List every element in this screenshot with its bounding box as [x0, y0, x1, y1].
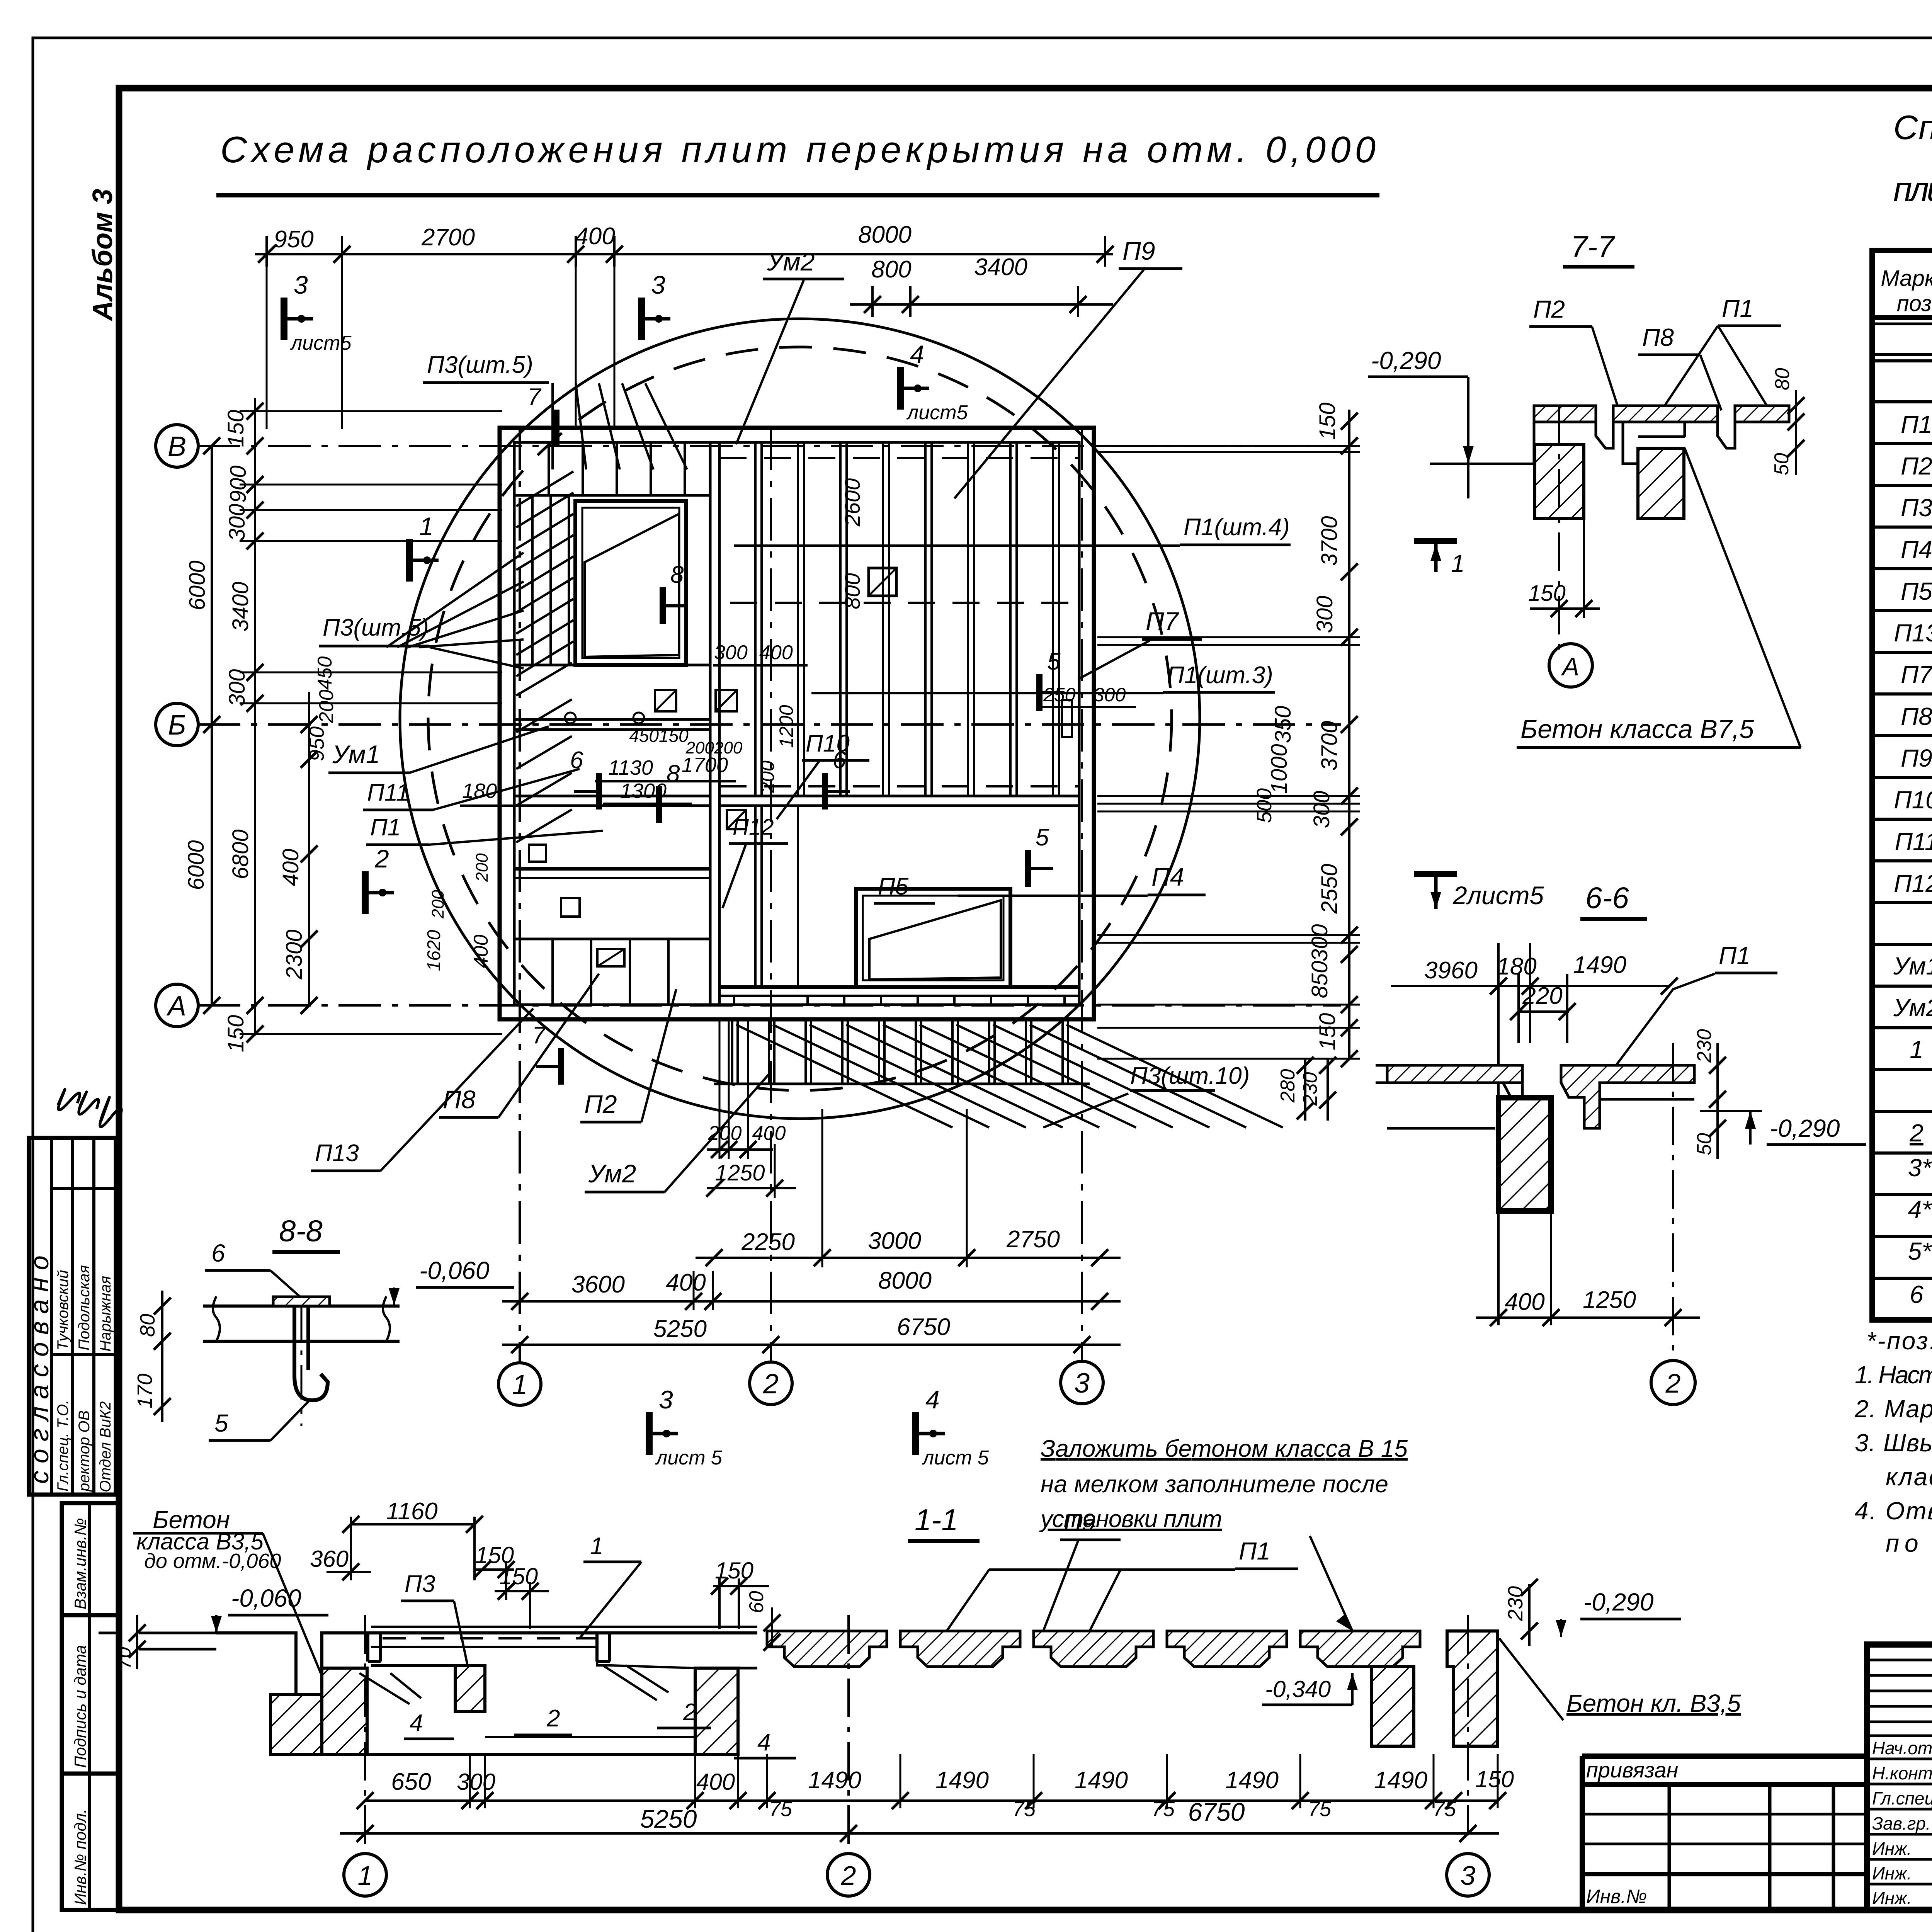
svg-text:П4: П4: [1901, 536, 1932, 563]
svg-text:450: 450: [314, 656, 336, 690]
svg-text:75: 75: [1433, 1798, 1456, 1821]
svg-text:250: 250: [1043, 684, 1076, 706]
svg-text:П8: П8: [1642, 323, 1674, 351]
svg-text:230: 230: [1299, 1072, 1321, 1106]
svg-text:Н.контр.: Н.контр.: [1872, 1763, 1932, 1783]
svg-text:1: 1: [419, 512, 434, 541]
svg-text:П5: П5: [878, 873, 909, 900]
svg-text:800: 800: [840, 573, 864, 609]
svg-text:Марка,: Марка,: [1881, 266, 1932, 291]
svg-text:-0,290: -0,290: [1371, 347, 1441, 374]
svg-text:1: 1: [358, 1861, 373, 1891]
svg-text:300: 300: [1094, 684, 1126, 706]
svg-text:1300: 1300: [620, 779, 667, 803]
svg-text:3700: 3700: [1317, 721, 1342, 770]
svg-text:3*: 3*: [1908, 1154, 1932, 1182]
svg-text:П1: П1: [1901, 410, 1932, 438]
svg-text:230: 230: [1693, 1029, 1716, 1063]
svg-text:6750: 6750: [1188, 1798, 1245, 1826]
svg-text:П11: П11: [367, 779, 409, 806]
svg-text:Гл.спец. Т.О.: Гл.спец. Т.О.: [54, 1400, 71, 1492]
svg-text:Ум2: Ум2: [767, 247, 815, 276]
svg-text:Ум2: Ум2: [1893, 994, 1932, 1022]
svg-text:лист5: лист5: [906, 401, 968, 424]
svg-text:5*: 5*: [1908, 1237, 1932, 1265]
svg-text:5250: 5250: [653, 1316, 707, 1342]
svg-text:2250: 2250: [741, 1229, 795, 1255]
svg-text:300: 300: [457, 1769, 495, 1795]
svg-text:1490: 1490: [1374, 1767, 1427, 1794]
svg-text:1490: 1490: [808, 1767, 861, 1794]
svg-text:3400: 3400: [974, 254, 1027, 281]
svg-text:П12: П12: [1894, 869, 1932, 897]
svg-text:-0,290: -0,290: [1583, 1588, 1654, 1616]
svg-text:5: 5: [1047, 648, 1061, 675]
svg-text:Подпись и дата: Подпись и дата: [71, 1645, 89, 1768]
svg-text:Ум1: Ум1: [1893, 952, 1932, 980]
svg-text:1130: 1130: [608, 756, 653, 779]
svg-text:П13: П13: [1894, 619, 1932, 647]
svg-text:П4: П4: [1151, 862, 1184, 891]
svg-text:75: 75: [1151, 1798, 1175, 1821]
svg-text:Заложить бетоном класса В 15: Заложить бетоном класса В 15: [1041, 1435, 1408, 1462]
svg-text:Подольская: Подольская: [76, 1265, 93, 1350]
svg-text:4: 4: [925, 1385, 940, 1414]
svg-text:Нач.отд: Нач.отд: [1872, 1738, 1932, 1758]
svg-text:5: 5: [214, 1409, 228, 1437]
svg-text:-0,060: -0,060: [231, 1584, 301, 1612]
svg-text:300: 300: [224, 669, 250, 707]
svg-text:Б: Б: [168, 710, 186, 741]
svg-text:поз.: поз.: [1897, 291, 1932, 316]
svg-text:до отм.-0,060: до отм.-0,060: [144, 1549, 281, 1573]
svg-text:75: 75: [769, 1798, 793, 1821]
svg-text:300: 300: [224, 504, 250, 541]
svg-text:3000: 3000: [868, 1228, 921, 1254]
svg-text:7: 7: [532, 1022, 546, 1049]
svg-text:*-поз. 3,4,5- см. ведомость д: *-поз. 3,4,5- см. ведомость деталей на л…: [1866, 1327, 1932, 1355]
svg-text:2: 2: [1909, 1119, 1923, 1147]
svg-text:850: 850: [1307, 961, 1332, 998]
svg-text:1160: 1160: [386, 1498, 437, 1525]
svg-text:400: 400: [575, 223, 615, 250]
svg-text:8: 8: [670, 561, 684, 588]
svg-text:150: 150: [223, 1015, 248, 1053]
svg-text:2: 2: [546, 1705, 560, 1732]
svg-text:П2: П2: [1533, 295, 1565, 323]
svg-text:150: 150: [1315, 1013, 1340, 1051]
svg-text:Альбом 3: Альбом 3: [87, 189, 118, 321]
svg-text:50: 50: [1693, 1133, 1716, 1155]
svg-text:900: 900: [226, 466, 251, 503]
svg-text:3600: 3600: [571, 1271, 625, 1298]
svg-text:Бетон класса В7,5: Бетон класса В7,5: [1520, 714, 1754, 744]
svg-text:класса В15 на мелком запол: класса В15 на мелком заполнителе: [1886, 1463, 1932, 1491]
svg-text:650: 650: [391, 1769, 431, 1795]
svg-text:П1: П1: [370, 814, 401, 841]
svg-text:400: 400: [752, 1122, 786, 1145]
svg-text:4: 4: [910, 340, 924, 369]
svg-text:950: 950: [274, 226, 313, 253]
svg-text:1490: 1490: [1573, 952, 1626, 978]
svg-text:П3: П3: [405, 1571, 435, 1597]
svg-text:400: 400: [759, 641, 793, 664]
svg-text:400: 400: [470, 935, 492, 968]
svg-text:1250: 1250: [1583, 1287, 1636, 1313]
svg-text:8000: 8000: [878, 1267, 932, 1294]
svg-text:Спецификация к схеме распол: Спецификация к схеме расположения: [1893, 108, 1932, 146]
svg-text:150: 150: [499, 1563, 538, 1589]
svg-text:П1: П1: [1719, 942, 1750, 969]
svg-text:7: 7: [527, 384, 542, 410]
svg-text:1250: 1250: [715, 1160, 765, 1185]
svg-text:300: 300: [1307, 924, 1332, 962]
svg-text:4: 4: [757, 1729, 770, 1756]
svg-text:6-6: 6-6: [1585, 881, 1629, 915]
svg-text:70: 70: [113, 1647, 135, 1669]
svg-text:170: 170: [133, 1374, 156, 1408]
svg-text:П9: П9: [1064, 1509, 1095, 1536]
svg-text:5: 5: [1036, 824, 1049, 851]
svg-text:2. Маркировка балок перекрыт: 2. Маркировка балок перекрытия на листе …: [1854, 1395, 1932, 1423]
svg-text:2: 2: [763, 1369, 779, 1400]
svg-text:2лист5: 2лист5: [1452, 881, 1544, 910]
svg-text:П7: П7: [1901, 661, 1932, 689]
svg-text:4: 4: [410, 1710, 423, 1736]
svg-text:Инж.: Инж.: [1872, 1863, 1912, 1883]
svg-text:60: 60: [745, 1591, 768, 1613]
svg-text:Нарыжная: Нарыжная: [97, 1276, 114, 1352]
svg-text:150: 150: [1528, 581, 1566, 606]
svg-text:П8: П8: [1901, 702, 1932, 730]
svg-text:75: 75: [1012, 1798, 1036, 1821]
svg-text:2750: 2750: [1006, 1226, 1060, 1253]
svg-text:1200: 1200: [776, 705, 797, 748]
svg-text:-0,340: -0,340: [1265, 1676, 1331, 1702]
svg-text:2300: 2300: [282, 929, 307, 980]
svg-text:6000: 6000: [184, 840, 209, 890]
svg-text:180: 180: [462, 779, 497, 803]
svg-text:150: 150: [223, 410, 248, 447]
svg-text:8000: 8000: [858, 221, 912, 248]
svg-text:П3(шт.5): П3(шт.5): [427, 352, 533, 378]
svg-text:1: 1: [1910, 1036, 1923, 1063]
svg-text:300: 300: [714, 641, 748, 664]
svg-text:3400: 3400: [228, 582, 253, 631]
svg-text:1. Настоящий чертеж смотреть: 1. Настоящий чертеж смотреть с листом 6.: [1855, 1361, 1932, 1389]
svg-text:1620: 1620: [424, 930, 444, 971]
svg-text:1: 1: [1451, 549, 1465, 577]
svg-text:Отдел ВиК2: Отдел ВиК2: [97, 1401, 114, 1492]
svg-text:80: 80: [136, 1314, 159, 1337]
svg-text:3: 3: [651, 270, 665, 299]
svg-text:1: 1: [512, 1369, 527, 1400]
svg-text:ректор ОВ: ректор ОВ: [76, 1410, 93, 1492]
svg-text:П2: П2: [1901, 452, 1932, 480]
svg-text:200: 200: [315, 690, 338, 724]
svg-text:150: 150: [1475, 1766, 1514, 1792]
svg-text:3960: 3960: [1424, 957, 1478, 984]
svg-text:Бетон кл. В3,5: Бетон кл. В3,5: [1566, 1689, 1741, 1717]
svg-text:В: В: [168, 431, 186, 462]
svg-text:3: 3: [1461, 1861, 1476, 1891]
svg-text:400: 400: [666, 1269, 706, 1296]
svg-text:Схема расположения плит пер: Схема расположения плит перекрытия на от…: [220, 129, 1376, 170]
svg-text:6000: 6000: [185, 560, 210, 610]
svg-text:450150: 450150: [629, 726, 689, 746]
svg-text:П9: П9: [1122, 236, 1155, 265]
svg-text:2550: 2550: [1317, 864, 1342, 914]
svg-text:400: 400: [1505, 1289, 1544, 1315]
svg-text:3: 3: [294, 270, 308, 299]
svg-text:П13: П13: [315, 1140, 359, 1167]
svg-text:280: 280: [1277, 1069, 1299, 1103]
svg-text:3. Швы между плитами заполн: 3. Швы между плитами заполнить бетоном: [1855, 1429, 1932, 1457]
svg-text:А: А: [1561, 652, 1579, 681]
svg-text:80: 80: [1771, 368, 1794, 390]
svg-text:50: 50: [1770, 453, 1793, 475]
svg-text:на мелком заполнителе после: на мелком заполнителе после: [1041, 1471, 1388, 1498]
svg-text:П2: П2: [584, 1090, 617, 1118]
svg-text:лист 5: лист 5: [655, 1447, 723, 1469]
svg-text:Зав.гр.: Зав.гр.: [1872, 1813, 1931, 1833]
svg-text:П3: П3: [1901, 494, 1932, 522]
svg-text:П12: П12: [733, 815, 774, 840]
svg-text:Ум1: Ум1: [332, 740, 380, 769]
svg-text:П5: П5: [1901, 577, 1932, 605]
svg-text:П10: П10: [1894, 786, 1932, 814]
svg-text:А: А: [166, 991, 186, 1022]
svg-text:Взам.инв.№: Взам.инв.№: [71, 1518, 89, 1609]
svg-text:2: 2: [841, 1861, 856, 1891]
svg-text:800: 800: [871, 256, 911, 283]
svg-text:Инж.: Инж.: [1872, 1838, 1912, 1859]
svg-text:П7: П7: [1146, 607, 1179, 635]
svg-text:лист5: лист5: [290, 332, 352, 354]
svg-text:П1(шт.3): П1(шт.3): [1167, 662, 1273, 689]
svg-text:П1(шт.4): П1(шт.4): [1184, 514, 1290, 541]
svg-text:360: 360: [310, 1546, 349, 1572]
svg-text:3700: 3700: [1317, 516, 1342, 566]
svg-text:1-1: 1-1: [915, 1503, 958, 1537]
svg-text:350: 350: [1270, 706, 1296, 743]
svg-text:8: 8: [667, 760, 680, 787]
svg-text:200200: 200200: [685, 738, 743, 757]
svg-text:2700: 2700: [421, 224, 475, 251]
svg-text:Ум2: Ум2: [588, 1159, 636, 1188]
svg-text:1000: 1000: [1267, 744, 1292, 794]
svg-text:400: 400: [278, 849, 303, 886]
svg-text:с о г л а с о в а н о: с о г л а с о в а н о: [25, 1255, 54, 1484]
svg-text:1490: 1490: [1225, 1767, 1279, 1794]
svg-text:плит перекрытия на отм. 0: плит перекрытия на отм. 0,000: [1893, 170, 1932, 208]
svg-text:200: 200: [473, 853, 492, 882]
svg-text:П3(шт.10): П3(шт.10): [1130, 1063, 1250, 1089]
svg-text:6: 6: [211, 1239, 225, 1267]
svg-text:2600: 2600: [840, 478, 864, 527]
svg-text:1: 1: [590, 1533, 603, 1560]
svg-text:Инв.№: Инв.№: [1586, 1886, 1647, 1907]
svg-text:П10: П10: [806, 730, 850, 757]
svg-text:200: 200: [757, 760, 778, 793]
svg-text:-0,060: -0,060: [419, 1257, 490, 1284]
svg-text:7-7: 7-7: [1571, 230, 1615, 264]
svg-text:75: 75: [1308, 1798, 1332, 1821]
svg-text:6800: 6800: [228, 829, 253, 879]
svg-text:-0,290: -0,290: [1770, 1114, 1840, 1142]
svg-text:3: 3: [659, 1385, 673, 1414]
svg-text:500: 500: [1253, 788, 1276, 823]
svg-text:950: 950: [305, 726, 328, 761]
svg-text:6750: 6750: [897, 1314, 950, 1340]
svg-text:Тучковский: Тучковский: [54, 1270, 71, 1350]
svg-text:П1: П1: [1722, 294, 1753, 322]
svg-text:200: 200: [429, 890, 447, 919]
svg-text:П9: П9: [1901, 744, 1932, 772]
svg-text:Гл.спец: Гл.спец: [1872, 1788, 1932, 1808]
svg-text:5250: 5250: [640, 1804, 697, 1833]
svg-text:Инж.: Инж.: [1872, 1888, 1912, 1908]
svg-text:300: 300: [1312, 596, 1337, 633]
svg-text:400: 400: [696, 1769, 735, 1795]
svg-text:2: 2: [683, 1699, 696, 1726]
svg-text:привязан: привязан: [1586, 1758, 1678, 1782]
svg-text:1490: 1490: [1075, 1767, 1128, 1794]
svg-text:по месту: по месту: [1886, 1529, 1932, 1557]
svg-text:П11: П11: [1895, 828, 1932, 855]
svg-text:П1: П1: [1239, 1537, 1270, 1565]
svg-text:150: 150: [1315, 403, 1340, 440]
svg-text:лист 5: лист 5: [922, 1447, 989, 1469]
svg-text:6: 6: [1910, 1281, 1923, 1308]
svg-text:4*: 4*: [1908, 1196, 1932, 1223]
svg-text:3: 3: [1074, 1368, 1090, 1399]
svg-text:2: 2: [374, 844, 389, 873]
svg-text:Инв.№ подл.: Инв.№ подл.: [71, 1809, 89, 1905]
svg-text:8-8: 8-8: [279, 1214, 323, 1248]
svg-text:1490: 1490: [935, 1767, 989, 1794]
svg-text:2: 2: [1665, 1368, 1681, 1398]
svg-text:4. Отверстия диаметром до 15: 4. Отверстия диаметром до 150мм просверл…: [1855, 1497, 1932, 1525]
svg-text:300: 300: [1309, 791, 1334, 828]
